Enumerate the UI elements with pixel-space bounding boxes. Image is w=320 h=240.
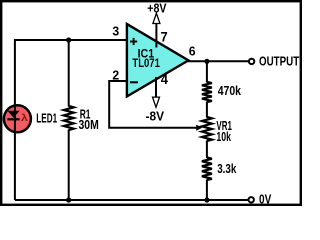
wire pin 7 to +8V bbox=[155, 23, 157, 48]
terminal OUTPUT bbox=[249, 59, 254, 64]
op-amp U1 triangle bbox=[127, 24, 188, 96]
label LED1 bbox=[36, 111, 57, 125]
node junction 3.3k bottom bbox=[204, 197, 209, 202]
value label R1 bbox=[80, 108, 91, 122]
svg-text:0V: 0V bbox=[259, 193, 272, 207]
label OUTPUT bbox=[259, 55, 299, 69]
svg-text:LED1: LED1 bbox=[36, 111, 57, 125]
power label -8V bbox=[146, 109, 165, 124]
svg-text:OUTPUT: OUTPUT bbox=[259, 55, 299, 69]
label IC1 bbox=[138, 46, 155, 60]
svg-text:3.3k: 3.3k bbox=[217, 162, 236, 176]
svg-text:TL071: TL071 bbox=[132, 56, 160, 70]
potentiometer VR1 bbox=[202, 117, 212, 141]
value label 3.3k bbox=[217, 162, 236, 176]
pin label 6 bbox=[189, 45, 196, 59]
svg-text:30M: 30M bbox=[79, 118, 99, 132]
resistor 3.3k bbox=[202, 158, 212, 181]
wire pin 2 feedback to VR1 wiper bbox=[109, 81, 197, 128]
power -8V arrow bbox=[153, 97, 160, 107]
LED LED1 bbox=[4, 105, 31, 132]
wire output node down to 470k bbox=[206, 61, 208, 82]
node junction top of R1 bbox=[66, 37, 71, 42]
wire 3.3k to 0V rail bbox=[206, 180, 208, 201]
wire pin 4 to -8V bbox=[155, 77, 157, 98]
resistor R1 bbox=[64, 106, 74, 130]
svg-text:10k: 10k bbox=[216, 130, 231, 144]
VR1 wiper arrow bbox=[196, 125, 202, 131]
pin label 2 bbox=[112, 68, 119, 82]
op-amp plus input marker bbox=[130, 38, 137, 45]
svg-text:-8V: -8V bbox=[146, 109, 165, 124]
value label 30M bbox=[79, 118, 99, 132]
wire bottom 0V rail bbox=[15, 199, 249, 201]
wire R1 top lead bbox=[68, 40, 70, 107]
power +8V arrow bbox=[153, 13, 160, 23]
power label +8V bbox=[147, 0, 166, 15]
terminal 0V bbox=[249, 197, 254, 202]
svg-text:6: 6 bbox=[189, 45, 196, 59]
value label 470k bbox=[218, 84, 241, 98]
node junction output bbox=[204, 59, 209, 64]
svg-text:λ: λ bbox=[21, 113, 28, 124]
label TL071 bbox=[132, 56, 160, 70]
wire VR1 to 3.3k bbox=[206, 141, 208, 159]
pin label 7 bbox=[161, 30, 168, 45]
wire 470k to VR1 bbox=[206, 102, 208, 118]
label 0V bbox=[259, 193, 272, 207]
pin label 3 bbox=[112, 24, 119, 38]
pin label 4 bbox=[161, 72, 169, 87]
wire R1 bottom lead bbox=[68, 130, 70, 201]
svg-text:4: 4 bbox=[161, 72, 169, 87]
resistor 470k bbox=[202, 82, 212, 102]
svg-text:3: 3 bbox=[112, 24, 119, 38]
svg-text:470k: 470k bbox=[218, 84, 241, 98]
svg-text:7: 7 bbox=[161, 30, 168, 45]
svg-text:+8V: +8V bbox=[147, 0, 166, 15]
wire pin 6 output bbox=[188, 60, 249, 62]
op-amp minus input marker bbox=[130, 81, 138, 83]
label VR1 bbox=[216, 119, 232, 133]
node junction bottom of R1 bbox=[66, 197, 71, 202]
wire top rail from left corner to pin 3 bbox=[15, 40, 127, 200]
value label 10k bbox=[216, 130, 231, 144]
